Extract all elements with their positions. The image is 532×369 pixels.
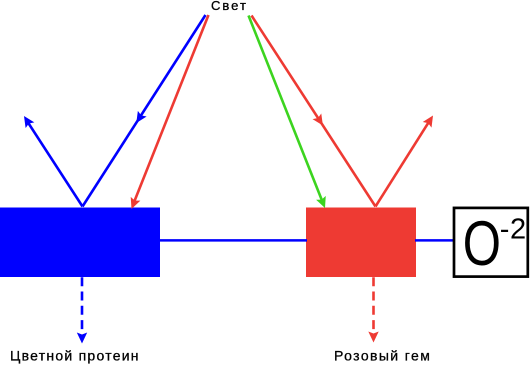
dashed arrow red (heme box down) bbox=[368, 277, 378, 342]
ray blue incoming (Свет to blue box) bbox=[83, 15, 206, 207]
svg-text:-2: -2 bbox=[500, 214, 527, 246]
dashed arrow blue (blue box down) bbox=[77, 277, 87, 343]
ray red absorbed (Свет to blue box) bbox=[127, 15, 209, 211]
blue protein box bbox=[0, 208, 160, 278]
ray red reflected (heme box up-right) bbox=[376, 113, 438, 207]
svg-text:Розовый гем: Розовый гем bbox=[334, 348, 431, 364]
svg-text:Цветной протеин: Цветной протеин bbox=[10, 348, 140, 364]
ray red incoming (Свет to heme box) bbox=[252, 16, 376, 207]
O-2 box bbox=[454, 208, 528, 278]
ray green absorbed (Свет to heme box) bbox=[249, 16, 330, 210]
pink heme box bbox=[306, 208, 416, 278]
wire blue-box to heme-box bbox=[159, 239, 307, 242]
svg-text:O: O bbox=[463, 208, 501, 278]
svg-text:Свет: Свет bbox=[211, 0, 248, 13]
ray blue reflected (blue box up-left) bbox=[20, 113, 83, 206]
wire heme-box to O-2 box bbox=[415, 239, 453, 242]
